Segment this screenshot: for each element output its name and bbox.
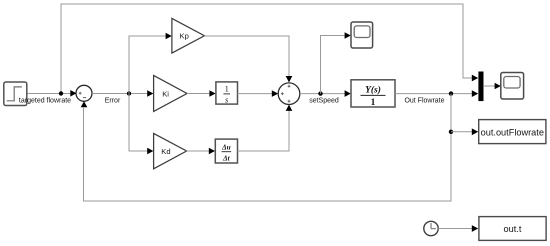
wire: feedback from node D down and around to sum1 bottom	[84, 94, 452, 201]
wire: Out Flowrate from plant to mux bottom input	[395, 90, 478, 97]
gain Kp	[172, 18, 205, 53]
arrowhead into sum1 bottom input	[81, 101, 88, 107]
svg-text:setSpeed: setSpeed	[309, 98, 339, 105]
wire: derivative output to sum2 bottom	[238, 105, 293, 152]
wire: error signal from sum1 to Ki	[92, 93, 148, 95]
scope2 block	[501, 73, 524, 100]
svg-text:out.outFlowrate: out.outFlowrate	[481, 128, 544, 138]
svg-text:out.t: out.t	[504, 224, 522, 234]
svg-text:targeted flowrate: targeted flowrate	[19, 97, 71, 104]
svg-text:Kd: Kd	[161, 147, 170, 156]
scope1 block	[351, 22, 373, 48]
clock block	[424, 221, 438, 235]
svg-text:Ki: Ki	[162, 89, 169, 98]
wire: Kp output to sum2 top	[204, 36, 292, 83]
wire: Kd output to derivative block	[187, 148, 215, 155]
svg-text:1: 1	[371, 98, 376, 108]
wire: Ki output to integrator	[187, 90, 216, 97]
label: Out Flowrate signal name	[404, 97, 444, 104]
arrowhead into sum1 left input	[70, 90, 76, 97]
node E junction dot on feedback vertical	[449, 130, 453, 134]
sum junction sum2 (PID add)	[278, 83, 300, 105]
sum junction sum1 (error subtract)	[76, 85, 92, 101]
wire: setSpeed from sum2 to plant	[300, 90, 351, 97]
svg-text:1: 1	[225, 85, 229, 94]
outport block out.t	[479, 217, 546, 241]
node D junction dot on Out Flowrate line	[449, 91, 453, 95]
node A junction dot on step output	[59, 91, 63, 95]
arrowhead into Ki	[147, 90, 153, 97]
svg-text:Error: Error	[105, 97, 121, 104]
svg-text:Δt: Δt	[222, 154, 231, 162]
wire: setSpeed branch up to scope1	[321, 32, 351, 93]
svg-text:Kp: Kp	[180, 32, 189, 41]
label: Error signal name	[105, 97, 121, 104]
wire: branch from node E to out.outFlowrate	[451, 128, 478, 135]
label: setSpeed signal name	[309, 98, 339, 105]
node B junction dot on error line	[127, 91, 131, 95]
wire: step output to sum1	[27, 93, 71, 95]
mux block (black bar)	[478, 72, 483, 102]
gain Kd	[154, 133, 187, 168]
svg-text:Y(s): Y(s)	[365, 84, 381, 95]
step source block	[4, 82, 27, 106]
node C junction dot on setSpeed line	[318, 91, 322, 95]
integrator block 1/s	[216, 82, 238, 105]
svg-text:s: s	[225, 95, 228, 104]
plant transfer function Y(s)/1	[351, 80, 395, 108]
wire: clock to out.t	[438, 225, 478, 232]
wire: top feed line from node A to mux top input	[61, 4, 478, 94]
wire: branch down to Kd	[129, 94, 153, 155]
gain Ki	[154, 75, 187, 111]
svg-text:Δu: Δu	[221, 144, 231, 152]
label: targeted flowrate signal name	[19, 97, 71, 104]
wire: mux output to scope2	[483, 83, 501, 90]
wire: branch up to Kp	[129, 33, 172, 94]
svg-text:Out Flowrate: Out Flowrate	[404, 97, 444, 104]
wire: integrator output to sum2 left	[238, 90, 279, 97]
outport block out.outFlowrate	[479, 120, 546, 144]
derivative block du/dt	[215, 139, 237, 163]
